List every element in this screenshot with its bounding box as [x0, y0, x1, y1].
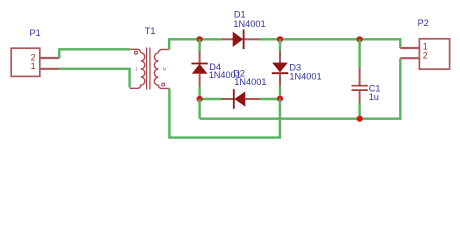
node junction C1 top — [357, 36, 363, 42]
svg-text:2: 2 — [423, 50, 428, 60]
svg-text:P2: P2 — [418, 18, 429, 28]
wire D4 bottom lead net — [198, 87, 200, 99]
wire secondary top to rail — [169, 39, 199, 49]
primary winding — [130, 49, 145, 88]
wire P1 pin2 riser — [59, 49, 130, 58]
wire top rail left segment — [200, 38, 221, 40]
diode D3 — [272, 51, 288, 87]
node junction mid-left — [197, 96, 203, 102]
diode D4 — [191, 51, 207, 88]
wire P1 pin1 to T1 — [59, 69, 129, 88]
connector P2 — [400, 39, 449, 69]
svg-text:N: N — [163, 66, 166, 71]
transformer T1 — [130, 48, 170, 90]
node junction top-mid — [277, 36, 283, 42]
wire neg rail — [200, 58, 401, 118]
diode D1 — [221, 30, 260, 50]
svg-text:P1: P1 — [30, 28, 41, 38]
core — [146, 48, 148, 90]
wire D4 top lead net — [198, 39, 200, 51]
wire middle rail right segment — [259, 98, 280, 100]
wire neg drop from mid-left — [198, 99, 200, 119]
svg-text:1u: 1u — [369, 92, 379, 102]
svg-text:D1: D1 — [234, 9, 246, 19]
svg-text:1: 1 — [31, 61, 36, 71]
svg-text:1N4001: 1N4001 — [233, 19, 265, 29]
wire middle rail left segment — [200, 98, 222, 100]
node junction top-left — [197, 36, 203, 42]
wire bottom return rail — [169, 88, 280, 137]
secondary winding — [154, 49, 169, 88]
primary polarity dot — [135, 51, 138, 54]
connector P1 — [11, 48, 59, 76]
svg-text:1N4001: 1N4001 — [289, 72, 321, 82]
node junction mid-right — [277, 96, 283, 102]
diode D2 — [221, 89, 259, 109]
wire D3 top lead net — [279, 39, 281, 51]
capacitor C1 — [352, 39, 368, 118]
wire D3 bottom lead net — [279, 86, 281, 99]
secondary polarity dot — [162, 83, 165, 86]
node junction C1 bottom — [357, 116, 363, 122]
svg-text:T1: T1 — [145, 26, 156, 36]
wire top rail right segment — [260, 39, 401, 48]
svg-text:1N4001: 1N4001 — [234, 77, 266, 87]
